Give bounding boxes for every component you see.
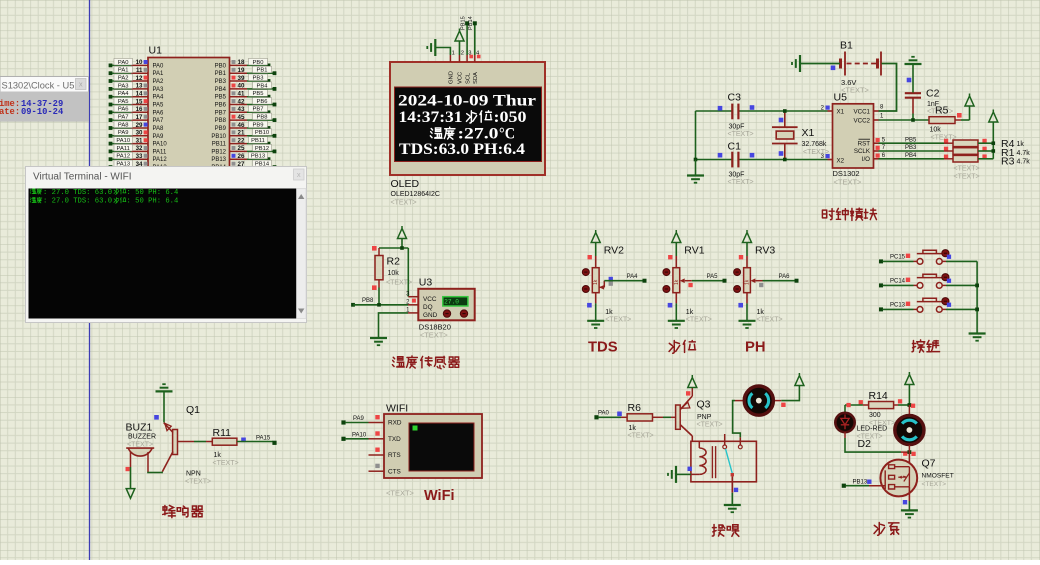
svg-text:PA3: PA3 [118, 83, 129, 89]
svg-text:PC15: PC15 [890, 255, 906, 261]
svg-text:30: 30 [136, 130, 143, 137]
svg-text:13: 13 [136, 83, 143, 90]
transistor Q3 PNP [676, 405, 681, 429]
svg-text:: 50 PH: 6.4: : 50 PH: 6.4 [127, 189, 179, 197]
svg-text:PB10: PB10 [255, 130, 269, 136]
wires U5 RST/SCLK/IO to resistors, nets PB5 PB3 PB4 [879, 142, 945, 144]
svg-text:PB5: PB5 [215, 95, 227, 101]
virtual terminal window [26, 167, 307, 323]
svg-text:PB4: PB4 [905, 153, 917, 159]
svg-text:PA10: PA10 [153, 142, 168, 148]
svg-text:: 27.0 TDS: 63.0: : 27.0 TDS: 63.0 [43, 189, 112, 197]
section label 温度传感器 (temperature sensor) [392, 356, 459, 369]
svg-text:PB0: PB0 [215, 63, 227, 69]
pin PA8 (pin 29) of U1, left [109, 121, 164, 132]
svg-text:1k: 1k [686, 309, 694, 316]
svg-text:1k: 1k [605, 309, 613, 316]
svg-text:: 27.0 TDS: 63.0: : 27.0 TDS: 63.0 [43, 198, 112, 206]
svg-text:X1: X1 [802, 127, 815, 139]
svg-text:<TEXT>: <TEXT> [954, 166, 980, 173]
svg-text:U3: U3 [419, 277, 433, 289]
push button PC13 [879, 307, 883, 311]
svg-text:PC14: PC14 [890, 279, 906, 285]
relay (feeder) body [691, 441, 757, 482]
svg-text:PA6: PA6 [779, 274, 791, 280]
pin PA0 (pin 10) of U1, left [109, 58, 164, 69]
svg-text:PA8: PA8 [118, 122, 129, 128]
svg-text:PA1: PA1 [153, 71, 165, 77]
svg-text:PB13: PB13 [211, 157, 226, 163]
resistor R5 [929, 117, 955, 124]
OLED pin stub VCC [459, 55, 461, 62]
svg-text:15: 15 [136, 98, 143, 105]
OLED pin stub SCL [466, 55, 468, 62]
svg-text:Virtual Terminal - WIFI: Virtual Terminal - WIFI [33, 172, 132, 183]
WIFI pins RXD TXD RTS CTS [369, 422, 385, 424]
svg-text:PA2: PA2 [118, 75, 129, 81]
wire U3 GND to ground [408, 312, 418, 314]
U3 green display 27.0 [443, 297, 468, 306]
svg-text:NPN: NPN [186, 471, 201, 478]
IC U1 (STM32 MCU) body [148, 58, 230, 171]
svg-text:<TEXT>: <TEXT> [728, 131, 754, 138]
wire buzzer left to power-down arrow [126, 467, 130, 471]
U5 pin stubs and numbers [828, 110, 833, 112]
pin PA9 (pin 30) of U1, left [109, 129, 164, 140]
IC U5 DS1302 body [833, 104, 874, 168]
svg-text:R2: R2 [387, 256, 401, 268]
pin PB13 (pin 26) of U1, right [211, 152, 270, 163]
svg-text:PC13: PC13 [890, 303, 906, 309]
svg-text:1k: 1k [674, 279, 680, 285]
svg-text:PB1: PB1 [257, 68, 268, 74]
svg-text:46: 46 [238, 122, 245, 129]
popup window DS1302 Clock - U5 [0, 77, 89, 122]
svg-text:Q3: Q3 [697, 399, 711, 411]
svg-text:<TEXT>: <TEXT> [420, 331, 449, 340]
svg-text:VCC: VCC [458, 72, 464, 84]
ground below RV1 [668, 320, 685, 322]
svg-text:PA5: PA5 [707, 274, 719, 280]
wire R14 left corner to D2 [845, 404, 863, 406]
capacitor C3 [696, 110, 732, 112]
pin PB6 (pin 42) of U1, right [215, 98, 277, 109]
pin PA10 (pin 31) of U1, left [109, 137, 168, 148]
svg-text:PA12: PA12 [153, 157, 168, 163]
svg-text:Q1: Q1 [186, 404, 200, 416]
wire ground to Q1 emitter [163, 391, 165, 422]
power arrow above RV1 [675, 243, 677, 257]
svg-text:14: 14 [136, 91, 143, 98]
svg-text:14:37:31: 14:37:31 [399, 109, 463, 126]
svg-text:<TEXT>: <TEXT> [834, 178, 863, 187]
wire Q7 source to ground [908, 487, 910, 501]
svg-text:30pF: 30pF [729, 172, 745, 179]
svg-text:30pF: 30pF [729, 124, 745, 131]
svg-text:PB12: PB12 [211, 149, 226, 155]
ground below RV2 [587, 320, 604, 322]
motor M2 (pump) [908, 405, 910, 415]
potentiometer RV1 [675, 256, 677, 268]
svg-text:R14: R14 [869, 390, 888, 402]
RV1 interactive buttons [663, 269, 670, 276]
wire U5 VCC2 to R5 [879, 119, 930, 121]
svg-text:<TEXT>: <TEXT> [728, 179, 754, 186]
svg-text:PA10: PA10 [352, 432, 367, 438]
sheet border blue line [89, 0, 91, 560]
ground (rotated) at OLED GND [434, 39, 436, 56]
pin PA5 (pin 15) of U1, left [109, 98, 164, 109]
svg-text:C1: C1 [728, 141, 742, 153]
wire VCC vertical to U3 pin3 [407, 248, 409, 297]
svg-text:2024-10-09 Thur: 2024-10-09 Thur [398, 93, 536, 110]
svg-text:CTS: CTS [388, 468, 401, 475]
svg-text:1k: 1k [214, 452, 222, 459]
svg-text:x: x [79, 80, 83, 89]
power arrow above RV3 [746, 243, 748, 257]
svg-text:<TEXT>: <TEXT> [213, 460, 239, 467]
MOSFET Q7 [908, 452, 910, 468]
wire buzzer right to Q1 collector [147, 472, 163, 474]
resistor R14 [859, 400, 863, 404]
LED D2 (LED-RED) [835, 413, 854, 432]
push button PC15 [879, 259, 883, 263]
svg-text:10: 10 [136, 59, 143, 66]
svg-text:PA9: PA9 [118, 130, 129, 136]
svg-text:RV3: RV3 [755, 245, 775, 257]
svg-text:PA2: PA2 [153, 79, 165, 85]
svg-text:X2: X2 [837, 157, 845, 164]
svg-text:PA12: PA12 [116, 154, 130, 160]
transistor Q1 NPN [173, 430, 178, 455]
svg-text:RV1: RV1 [684, 245, 704, 257]
svg-text:PB6: PB6 [215, 103, 227, 109]
svg-text:WIFI: WIFI [386, 403, 408, 415]
WIFI black screen [409, 423, 474, 471]
OLED pin stub GND [449, 55, 451, 62]
svg-text:31: 31 [136, 137, 143, 144]
svg-text:PA10: PA10 [116, 138, 130, 144]
pin PA1 (pin 11) of U1, left [109, 66, 164, 77]
svg-text:PA6: PA6 [153, 110, 165, 116]
pin PA4 (pin 14) of U1, left [109, 90, 164, 101]
wire D2 bottom to drain junction [844, 432, 846, 438]
power arrow above pump [908, 385, 910, 406]
ground below U3 GND wire [370, 337, 387, 339]
svg-text:PB3: PB3 [905, 145, 917, 151]
svg-text:: 50 PH: 6.4: : 50 PH: 6.4 [127, 198, 179, 206]
svg-text:PA3: PA3 [153, 87, 165, 93]
svg-text:4.7k: 4.7k [1017, 159, 1031, 166]
pin PA2 (pin 12) of U1, left [109, 74, 164, 85]
wire bus right of R4/R1/R3 with power arrow [992, 122, 994, 159]
wire battery left to ground [801, 63, 841, 65]
svg-text:DQ: DQ [423, 304, 433, 311]
svg-text:ate:: ate: [0, 107, 20, 117]
pin PB9 (pin 46) of U1, right [215, 121, 271, 132]
svg-text::050: :050 [494, 109, 527, 126]
svg-text:29: 29 [136, 122, 143, 129]
svg-text:4.7k: 4.7k [1017, 150, 1031, 157]
OLED display module body [390, 62, 545, 175]
relay moving contact (cyan) [726, 449, 733, 474]
pin PB12 (pin 25) of U1, right [211, 144, 276, 155]
svg-text:22: 22 [238, 137, 245, 144]
svg-text:2: 2 [461, 51, 464, 57]
svg-text:PB15: PB15 [460, 16, 466, 30]
svg-text:<TEXT>: <TEXT> [686, 317, 712, 324]
svg-text:33: 33 [136, 153, 143, 160]
wire battery right to U5 VCC1 [879, 64, 897, 112]
svg-text:<TEXT>: <TEXT> [697, 422, 723, 429]
svg-text:PB14: PB14 [468, 16, 474, 30]
svg-text:<TEXT>: <TEXT> [803, 149, 829, 156]
svg-text:27.0: 27.0 [444, 299, 459, 306]
svg-text:45: 45 [238, 114, 245, 121]
wire OLED SDA up / net PB14 [474, 24, 476, 55]
svg-text:RST: RST [858, 140, 871, 147]
svg-text::27.0: :27.0 [458, 126, 499, 143]
svg-text:<TEXT>: <TEXT> [605, 317, 631, 324]
section label 水泵 (water pump) [874, 522, 899, 535]
svg-text:X1: X1 [837, 108, 845, 115]
RV3 wiper wire to net PA6 [750, 278, 755, 283]
svg-text:D2: D2 [858, 438, 872, 450]
svg-text:PB4: PB4 [215, 87, 227, 93]
power arrow above Q3 emitter [691, 388, 693, 397]
motor M1 (feeder) [744, 386, 773, 415]
pin PB7 (pin 43) of U1, right [215, 105, 271, 116]
wire net PA9 to RXD [341, 420, 345, 424]
resistor R2 [372, 246, 377, 251]
svg-text:RV2: RV2 [604, 245, 624, 257]
svg-text:PB0: PB0 [253, 60, 264, 66]
svg-text:x: x [297, 170, 301, 179]
power arrow at OLED VCC [459, 41, 461, 55]
crystal X1 [784, 111, 786, 127]
wire RV1 to ground [675, 293, 677, 304]
svg-text:PA8: PA8 [153, 126, 165, 132]
relay coil [698, 441, 700, 448]
section label 时钟模块 (clock module) [822, 208, 876, 220]
svg-text:NMOSFET: NMOSFET [922, 473, 954, 480]
svg-text:PA4: PA4 [118, 91, 129, 97]
svg-text:PA9: PA9 [153, 134, 165, 140]
pin PB5 (pin 41) of U1, right [215, 90, 271, 101]
svg-text:I/O: I/O [862, 156, 870, 163]
svg-text:40: 40 [238, 83, 245, 90]
RV2 wiper wire to net PA4 [599, 286, 604, 288]
power arrow above R2/U3 [401, 239, 403, 249]
pin PA7 (pin 17) of U1, left [109, 113, 164, 124]
svg-text:PB13: PB13 [251, 154, 265, 160]
svg-text:PB8: PB8 [215, 118, 227, 124]
svg-text:39: 39 [238, 75, 245, 82]
svg-text:PA0: PA0 [598, 411, 610, 417]
svg-text:12: 12 [136, 75, 143, 82]
svg-text:C2: C2 [926, 88, 940, 100]
svg-text:43: 43 [238, 106, 245, 113]
svg-text:PA9: PA9 [353, 416, 365, 422]
svg-text:41: 41 [238, 91, 245, 98]
svg-text:TXD: TXD [388, 436, 401, 443]
svg-text:TDS: TDS [588, 340, 618, 356]
svg-text:TDS:63.0 PH:6.4: TDS:63.0 PH:6.4 [399, 141, 525, 158]
svg-text:PB1: PB1 [215, 71, 227, 77]
terminal green text lines [30, 188, 42, 194]
svg-text:<TEXT>: <TEXT> [628, 433, 654, 440]
svg-text:42: 42 [238, 98, 245, 105]
svg-text:PB3: PB3 [253, 75, 264, 81]
svg-text:C3: C3 [728, 92, 742, 104]
svg-text:B1: B1 [840, 40, 853, 52]
wire R6 to Q3 base [653, 416, 664, 418]
resistor R6 [627, 414, 652, 421]
svg-text:S1302\Clock - U5: S1302\Clock - U5 [2, 80, 75, 90]
svg-text:PB3: PB3 [215, 79, 227, 85]
svg-text:PB5: PB5 [253, 91, 264, 97]
svg-text:SDA: SDA [473, 72, 479, 84]
svg-text:PB9: PB9 [215, 126, 227, 132]
ground (flipped) above Q1 [156, 390, 173, 392]
ground (flipped) above C2 [905, 63, 922, 65]
wire R2 top to VCC branch [379, 247, 408, 249]
push button PC14 [879, 283, 883, 287]
svg-text:PB9: PB9 [253, 122, 264, 128]
wire R2 bottom to PB8 net [378, 288, 380, 305]
wire net PA10 to TXD [341, 437, 345, 441]
svg-text:SCLK: SCLK [854, 148, 871, 155]
svg-text:BUZ1: BUZ1 [126, 422, 153, 434]
section label 水位 (water level) [669, 340, 696, 353]
pin PB3 (pin 39) of U1, right [215, 74, 271, 85]
svg-text:VCC2: VCC2 [853, 117, 870, 124]
svg-text:PA4: PA4 [627, 274, 639, 280]
svg-text:PB8: PB8 [257, 115, 268, 121]
ground below C1 [687, 174, 704, 176]
OLED text line3 temperature [430, 127, 455, 139]
svg-text:PB12: PB12 [255, 146, 269, 152]
capacitor C1 [696, 159, 732, 161]
wire net PB13 to Q7 gate [842, 484, 846, 488]
svg-text:PB5: PB5 [905, 137, 917, 143]
pin PA12 (pin 33) of U1, left [109, 152, 168, 163]
svg-text:PB7: PB7 [253, 107, 264, 113]
svg-text:25: 25 [238, 145, 245, 152]
resistor R3 [953, 155, 978, 162]
svg-text:10k: 10k [388, 270, 400, 277]
svg-text:1k: 1k [757, 309, 765, 316]
svg-text:<TEXT>: <TEXT> [185, 479, 211, 486]
svg-text:WiFi: WiFi [424, 488, 454, 504]
svg-text:<TEXT>: <TEXT> [127, 441, 153, 448]
wire left vertical C3-C1 [695, 111, 697, 160]
svg-text:21: 21 [238, 130, 245, 137]
svg-text:PB8: PB8 [362, 298, 374, 304]
wire net PA0 to R6 [594, 415, 598, 419]
section label 蜂鸣器 (buzzer) [163, 505, 203, 517]
svg-text:1k: 1k [629, 425, 637, 432]
svg-text:R6: R6 [628, 402, 642, 414]
pin PA6 (pin 16) of U1, left [109, 105, 164, 116]
svg-text:PA7: PA7 [118, 115, 129, 121]
pin PB4 (pin 40) of U1, right [215, 82, 277, 93]
svg-text:U5: U5 [834, 92, 848, 104]
pin PB14 (pin 27) of U1, right [211, 160, 276, 171]
terminal black area [29, 189, 297, 319]
svg-text:19: 19 [238, 67, 245, 74]
svg-text:PA5: PA5 [118, 99, 129, 105]
svg-text:R3: R3 [1001, 156, 1015, 168]
svg-text:PA11: PA11 [117, 146, 130, 152]
ground below RV3 [739, 320, 756, 322]
pin PB10 (pin 21) of U1, right [211, 129, 276, 140]
svg-text:32: 32 [136, 145, 143, 152]
svg-text:PB7: PB7 [215, 110, 227, 116]
svg-text:GND: GND [423, 312, 438, 319]
svg-text:OLED12864I2C: OLED12864I2C [391, 191, 440, 198]
svg-text:LED-RED: LED-RED [857, 426, 888, 433]
svg-text:16: 16 [136, 106, 143, 113]
wire RV2 to ground [595, 293, 597, 304]
svg-text:<TEXT>: <TEXT> [922, 481, 947, 488]
terminal scrollbar [297, 189, 307, 319]
svg-text:<TEXT>: <TEXT> [386, 489, 415, 498]
power arrow above RV2 [595, 243, 597, 257]
section label 按键 (buttons) [912, 340, 940, 352]
ground (rotated) left of B1 [799, 55, 801, 72]
wire motor M1 right to power arrow [775, 400, 781, 402]
svg-text:<TEXT>: <TEXT> [391, 200, 417, 207]
svg-text:PA15: PA15 [256, 436, 271, 442]
svg-text:1k: 1k [1017, 141, 1025, 148]
svg-text:OLED: OLED [391, 178, 420, 190]
svg-text:300: 300 [869, 412, 881, 419]
svg-text:PA7: PA7 [153, 118, 165, 124]
svg-text:RTS: RTS [388, 452, 401, 459]
svg-text:U1: U1 [149, 45, 163, 57]
svg-text:32.768k: 32.768k [802, 141, 827, 148]
section label 投喂 (feeding) [712, 524, 739, 536]
relay switch contacts [724, 434, 726, 445]
OLED pin stub SDA [474, 55, 476, 62]
pin PB11 (pin 22) of U1, right [212, 137, 271, 148]
svg-text:GND: GND [449, 71, 455, 84]
pin PA3 (pin 13) of U1, left [109, 82, 164, 93]
svg-text:1k: 1k [593, 279, 599, 285]
capacitor C2 [905, 92, 921, 94]
svg-text:PB6: PB6 [257, 99, 268, 105]
wire motor M1 left to relay NO contact [735, 400, 743, 402]
wire button bus to ground [976, 261, 978, 333]
svg-text:09-10-24: 09-10-24 [21, 107, 64, 117]
pin PB1 (pin 19) of U1, right [215, 66, 277, 77]
svg-text:PA1: PA1 [118, 68, 129, 74]
svg-text:PH: PH [745, 340, 766, 356]
svg-text:<TEXT>: <TEXT> [757, 317, 783, 324]
svg-text:RXD: RXD [388, 420, 402, 427]
wire OLED GND to ground [436, 48, 451, 56]
pin PA11 (pin 32) of U1, left [109, 144, 167, 155]
potentiometer RV2 [595, 256, 597, 268]
U3 up/down buttons [443, 310, 450, 317]
RV1 wiper wire to net PA5 [680, 278, 685, 283]
svg-text:PB13: PB13 [853, 480, 868, 486]
RV3 interactive buttons [734, 269, 741, 276]
ground (rotated) left of relay coil [677, 473, 692, 475]
temperature sensor U3 DS18B20 [418, 289, 474, 321]
RV2 interactive buttons [582, 269, 589, 276]
